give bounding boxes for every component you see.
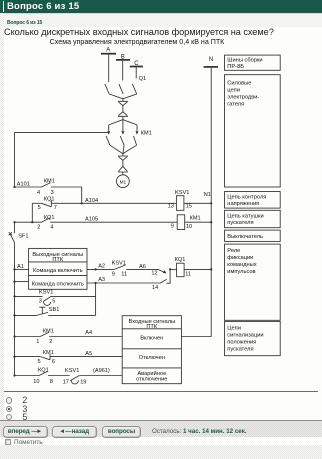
- right legend box 2: [225, 75, 281, 187]
- wire row3 left: [15, 221, 42, 223]
- node row3 junction: [31, 221, 33, 223]
- svg-text:7: 7: [54, 205, 57, 211]
- wire bypass vertical: [95, 283, 97, 315]
- svg-text:SF1: SF1: [18, 234, 28, 240]
- svg-text:1: 1: [36, 339, 39, 345]
- svg-text:4: 4: [50, 224, 53, 230]
- wire A4 to box: [49, 336, 122, 338]
- wire SB1 row: [15, 314, 96, 316]
- contactor KM1 blades: [106, 136, 110, 145]
- svg-text:А3: А3: [98, 277, 105, 283]
- wire coil KQ1 to N bus: [184, 268, 211, 270]
- svg-text:KSV1: KSV1: [65, 368, 79, 374]
- wire coil KSV1 to N bus: [184, 202, 211, 204]
- contactor KM1 arrows: [107, 131, 138, 134]
- svg-text:14: 14: [152, 285, 158, 291]
- svg-text:КМ1: КМ1: [190, 215, 201, 221]
- wire row3 to coil KM1: [50, 221, 177, 223]
- wire A5 row left: [15, 356, 41, 358]
- svg-text:Цепи: Цепи: [227, 326, 241, 332]
- node N-KQ1: [210, 268, 212, 270]
- svg-text:Шины сборки: Шины сборки: [227, 58, 262, 64]
- small question header: [7, 20, 42, 26]
- svg-text:KSV1: KSV1: [39, 290, 53, 296]
- svg-text:12: 12: [151, 271, 157, 277]
- breaker SF1: [9, 232, 15, 242]
- svg-text:19: 19: [80, 379, 86, 385]
- svg-text:Команда включить: Команда включить: [33, 268, 83, 274]
- wire left rail down: [14, 242, 16, 375]
- toolbar: [0, 421, 322, 437]
- node N-KSV1: [210, 202, 212, 204]
- svg-text:SB1: SB1: [49, 307, 60, 313]
- svg-text:А4: А4: [85, 330, 92, 336]
- wire left rail from phase A: [15, 133, 109, 187]
- svg-text:9: 9: [171, 224, 174, 230]
- svg-text:10: 10: [186, 224, 192, 230]
- svg-text:положения: положения: [227, 340, 256, 346]
- wire row1: [15, 186, 42, 188]
- right legend box 4: [225, 210, 281, 227]
- node row3 left: [13, 221, 15, 223]
- svg-text:2: 2: [37, 224, 40, 230]
- svg-text:цепи: цепи: [227, 87, 240, 93]
- right legend box 6: [225, 244, 281, 320]
- wire row1 to A104: [51, 187, 82, 203]
- wire A4 row left: [15, 336, 41, 338]
- node A101: [13, 186, 15, 188]
- svg-text:фиксации: фиксации: [227, 255, 253, 261]
- wire A2 row: [87, 268, 114, 270]
- answer options: [0, 0, 322, 1]
- svg-text:КQ1: КQ1: [38, 367, 49, 373]
- svg-text:13: 13: [168, 204, 174, 210]
- svg-text:ПР-8Б: ПР-8Б: [227, 64, 244, 70]
- bottom dithered strip: [0, 445, 322, 459]
- connector X2 (detachable link lower): [118, 166, 128, 172]
- wire coil KM1 to N bus: [185, 221, 212, 223]
- right legend box 1: [225, 55, 281, 70]
- svg-text:КМ1: КМ1: [43, 328, 54, 334]
- node + wire to box row2: [13, 281, 15, 283]
- node A104: [81, 202, 83, 204]
- svg-text:Команда отключить: Команда отключить: [32, 282, 84, 288]
- svg-text:5: 5: [38, 205, 41, 211]
- button SB1: [37, 307, 49, 315]
- branch to three poles: [109, 120, 137, 125]
- connector X1 (detachable link upper): [118, 101, 128, 105]
- svg-text:КМ1: КМ1: [141, 131, 152, 137]
- wire row2 left: [32, 202, 41, 204]
- right legend box 3: [225, 192, 281, 209]
- left dithered strip: [0, 13, 322, 14]
- wire V join below Q1: [109, 94, 137, 99]
- svg-text:А5: А5: [85, 351, 92, 357]
- connector X1 (detachable link lower): [118, 112, 128, 117]
- svg-text:10: 10: [33, 379, 39, 385]
- box PTK outputs: [29, 248, 87, 289]
- node KSV row left: [13, 295, 15, 297]
- svg-text:Включен: Включен: [140, 336, 163, 342]
- svg-text:4: 4: [37, 190, 40, 196]
- svg-text:6: 6: [52, 359, 55, 365]
- svg-text:пускателя: пускателя: [227, 220, 253, 226]
- box PTK inputs: [122, 316, 181, 384]
- svg-text:5: 5: [38, 359, 41, 365]
- wire A5 to box: [50, 356, 122, 358]
- svg-text:отключение: отключение: [136, 377, 167, 383]
- wire A1 to box: [15, 268, 29, 270]
- svg-text:пускателя: пускателя: [227, 347, 253, 353]
- svg-text:КQ1: КQ1: [44, 196, 55, 202]
- svg-text:Силовые: Силовые: [227, 80, 251, 86]
- svg-text:3: 3: [39, 298, 42, 304]
- svg-text:импульсов: импульсов: [227, 269, 255, 275]
- svg-text:электродви-: электродви-: [227, 94, 259, 100]
- svg-text:N: N: [209, 57, 213, 63]
- node A3: [95, 282, 97, 284]
- svg-text:ПТК: ПТК: [52, 257, 64, 263]
- svg-text:KSV1: KSV1: [175, 190, 189, 196]
- mark checkbox: [5, 439, 12, 446]
- node A4 row: [13, 335, 15, 337]
- wire row2 to coil KSV1: [51, 202, 176, 204]
- svg-text:КQ1: КQ1: [175, 257, 186, 263]
- contact KSV1 12: [158, 269, 164, 272]
- svg-text:N1: N1: [204, 192, 211, 198]
- motor M1: [117, 175, 130, 188]
- separator above toolbar: [0, 420, 322, 421]
- connector X2 (detachable link upper): [118, 156, 128, 160]
- svg-text:ПТК: ПТК: [146, 324, 158, 330]
- svg-text:гателя: гателя: [227, 101, 244, 107]
- wire node down: [166, 269, 170, 283]
- wire A6: [126, 268, 158, 270]
- wire: [48, 375, 70, 377]
- node SB1 row left: [13, 314, 15, 316]
- right legend box 7: [225, 321, 281, 355]
- svg-text:М1: М1: [120, 179, 127, 184]
- svg-text:(А961): (А961): [93, 368, 110, 374]
- svg-text:командных: командных: [227, 262, 256, 268]
- svg-text:2: 2: [49, 339, 52, 345]
- top green title bar: [0, 0, 322, 13]
- svg-text:5: 5: [52, 298, 55, 304]
- white row: [0, 438, 322, 446]
- wire A961 row left: [15, 375, 40, 377]
- svg-text:Q1: Q1: [139, 76, 146, 82]
- question text: [4, 27, 274, 37]
- wire V join below KM1: [110, 145, 137, 156]
- right legend box 5: [225, 230, 281, 241]
- svg-text:A: A: [106, 48, 110, 54]
- svg-text:9: 9: [112, 271, 115, 277]
- svg-text:А6: А6: [139, 264, 146, 270]
- svg-text:Цепь катушки: Цепь катушки: [227, 213, 263, 219]
- node before KQ1 coil: [169, 268, 171, 270]
- svg-text:Отключен: Отключен: [139, 355, 165, 361]
- svg-text:Реле: Реле: [227, 248, 240, 254]
- separator above answers: [4, 391, 318, 392]
- svg-text:3: 3: [51, 190, 54, 196]
- node A961 row: [13, 374, 15, 376]
- wire node to coil: [170, 268, 177, 270]
- wire left rail down: [14, 222, 16, 233]
- wire to box: [80, 375, 123, 377]
- node N-KM1: [210, 221, 212, 223]
- svg-text:8: 8: [50, 379, 53, 385]
- svg-text:17: 17: [63, 379, 69, 385]
- svg-text:Выключатель: Выключатель: [227, 234, 263, 240]
- svg-text:11: 11: [185, 271, 191, 277]
- svg-text:А101: А101: [17, 181, 30, 187]
- wire A3 row: [87, 282, 160, 284]
- svg-text:сигнализации: сигнализации: [227, 333, 263, 339]
- vertical joining row2-row3: [31, 203, 33, 222]
- svg-text:11: 11: [121, 272, 127, 278]
- wire KSV 3-5 row: [15, 295, 96, 297]
- svg-text:15: 15: [186, 204, 192, 210]
- svg-text:КМ1: КМ1: [43, 350, 54, 356]
- svg-text:А105: А105: [85, 216, 98, 222]
- node A2: [95, 268, 97, 270]
- wire N bus down: [182, 68, 212, 337]
- wire: [122, 106, 124, 112]
- svg-text:А2: А2: [98, 264, 105, 270]
- node A1: [13, 268, 15, 270]
- svg-text:Цепь контроля: Цепь контроля: [227, 194, 266, 200]
- node A5 row: [13, 356, 15, 358]
- svg-text:Схема управления электродвигат: Схема управления электродвигателем 0,4 к…: [50, 38, 226, 46]
- svg-text:напряжения: напряжения: [227, 201, 259, 207]
- contact KSV1 14: [160, 279, 167, 283]
